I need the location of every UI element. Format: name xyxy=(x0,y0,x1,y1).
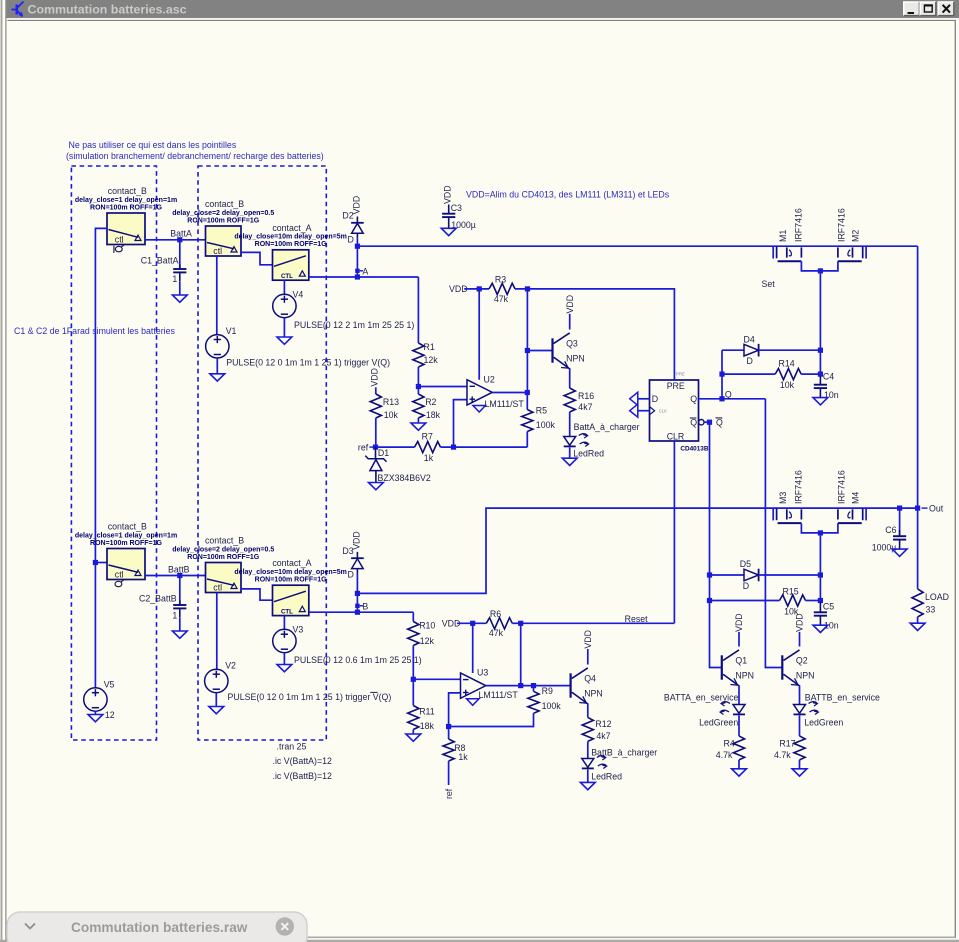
wire M1-M2 source strap xyxy=(801,261,838,271)
wire M3-M4 source strap xyxy=(801,523,838,533)
wire ctl contact_A1 to V4 xyxy=(283,280,285,294)
svg-text:CD4013B: CD4013B xyxy=(680,445,708,452)
wire D4 cathode to M1-M2 source rail xyxy=(759,349,821,351)
download bar overlay xyxy=(7,912,307,942)
svg-text:10k: 10k xyxy=(780,380,795,390)
transistor M4 xyxy=(836,470,862,523)
svg-text:C2_BattB: C2_BattB xyxy=(139,594,177,604)
svg-text:Commutation batteries.asc: Commutation batteries.asc xyxy=(28,3,187,17)
ground xyxy=(277,665,292,672)
svg-text:.ic V(BattB)=12: .ic V(BattB)=12 xyxy=(273,771,333,781)
svg-text:12k: 12k xyxy=(420,636,435,646)
wire R5 top lead xyxy=(526,393,528,410)
svg-text:R13: R13 xyxy=(383,397,399,407)
svg-text:IRF7416: IRF7416 xyxy=(794,470,804,504)
svg-text:M4: M4 xyxy=(851,492,861,504)
capacitor C6 xyxy=(872,525,907,553)
junction xyxy=(719,396,724,401)
svg-text:BattB: BattB xyxy=(168,564,190,574)
svg-text:NPN: NPN xyxy=(735,670,754,680)
svg-text:VDD=Alim du CD4013, des LM111: VDD=Alim du CD4013, des LM111 (LM311) et… xyxy=(466,189,670,199)
wire ctl contact_B2 to V1 xyxy=(216,256,218,335)
wire to C1 xyxy=(179,240,181,269)
wire R11 to ground xyxy=(412,730,414,735)
ground xyxy=(172,631,187,638)
wire Qbar to D5 xyxy=(710,574,745,576)
svg-text:47k: 47k xyxy=(489,628,504,638)
svg-text:R1: R1 xyxy=(424,342,435,352)
wire VDD to U3 V+ xyxy=(472,623,474,673)
ground xyxy=(910,623,925,630)
transistor Q2 xyxy=(782,613,814,686)
wire M2 gate lead xyxy=(865,246,867,258)
wire to U2 inverting input xyxy=(418,386,467,388)
switch U_contactB3 xyxy=(75,522,177,580)
svg-text:Out: Out xyxy=(929,503,944,513)
svg-text:delay_close=10m delay_open=5m: delay_close=10m delay_open=5m xyxy=(234,234,346,241)
voltage source V5 xyxy=(84,680,115,712)
junction xyxy=(707,598,712,603)
resistor R2 xyxy=(413,394,441,420)
svg-text:V5: V5 xyxy=(104,680,115,690)
junction xyxy=(818,598,823,603)
junction xyxy=(177,573,182,578)
capacitor C1_BattA xyxy=(141,255,187,284)
svg-text:Commutation batteries.raw: Commutation batteries.raw xyxy=(71,920,248,935)
svg-text:R10: R10 xyxy=(419,621,435,631)
wire Set to flip-flop PRE xyxy=(515,289,674,380)
wire R8 to ref xyxy=(448,761,450,785)
resistor R1 xyxy=(413,342,438,367)
wire LED to ground xyxy=(587,770,589,783)
svg-text:LedGreen: LedGreen xyxy=(804,718,843,728)
svg-text:.ic V(BattA)=12: .ic V(BattA)=12 xyxy=(273,756,333,766)
wire BattA left rail to V5 xyxy=(95,228,107,688)
svg-text:VDD: VDD xyxy=(352,196,362,215)
wire Qbar to Q1 base xyxy=(710,422,722,667)
svg-text:ref: ref xyxy=(358,442,369,452)
svg-text:RON=100m ROFF=1G: RON=100m ROFF=1G xyxy=(90,204,163,211)
voltage source V1 xyxy=(206,326,237,358)
wire Q to D4 anode xyxy=(721,350,723,399)
wire C1 to ground xyxy=(179,282,181,295)
junction xyxy=(818,348,823,353)
ground xyxy=(562,458,577,465)
svg-text:18k: 18k xyxy=(426,410,441,420)
ground xyxy=(369,483,384,490)
svg-text:LedRed: LedRed xyxy=(573,448,604,458)
svg-text:12: 12 xyxy=(105,710,115,720)
junction xyxy=(525,286,530,291)
svg-text:12k: 12k xyxy=(424,355,439,365)
wire VDD to Q1 collector xyxy=(738,632,740,647)
wire CLR down xyxy=(673,441,675,623)
svg-text:A: A xyxy=(362,266,368,276)
wire M1-M2 sources down to C4 xyxy=(819,271,821,374)
svg-text:ctl: ctl xyxy=(213,583,222,593)
svg-text:V2: V2 xyxy=(225,661,236,671)
svg-text:R5: R5 xyxy=(536,406,547,416)
wire contact_B2 to contact_A1 xyxy=(241,252,273,264)
wire Q output xyxy=(699,398,766,400)
wire contact_B4 to contact_A2 xyxy=(241,589,273,600)
junction xyxy=(416,384,421,389)
wire R8 top lead xyxy=(448,727,450,740)
wire V2 to ground xyxy=(215,693,217,707)
LED D_LedGreen_A xyxy=(699,702,745,728)
svg-text:Q: Q xyxy=(725,389,732,399)
ground xyxy=(441,228,456,235)
svg-text:CLK: CLK xyxy=(659,408,667,413)
svg-text:VDD: VDD xyxy=(370,368,380,387)
svg-text:C5: C5 xyxy=(823,601,834,611)
wire Out to LOAD xyxy=(917,508,919,589)
svg-text:1000µ: 1000µ xyxy=(872,543,897,553)
wire VDD to Q4 collector xyxy=(587,649,589,665)
svg-text:1k: 1k xyxy=(424,453,434,463)
transistor Q4 xyxy=(571,630,603,704)
resistor R6 xyxy=(486,609,512,638)
wire Out to C6 xyxy=(899,508,901,536)
wire U2 output xyxy=(492,392,527,394)
wire LOAD to ground xyxy=(917,617,919,623)
svg-text:R14: R14 xyxy=(779,358,795,368)
ground xyxy=(210,374,225,381)
wire D2 to node A xyxy=(356,238,358,277)
ground xyxy=(813,398,828,405)
wire CLK pin xyxy=(637,410,649,412)
ground xyxy=(411,423,426,430)
junction xyxy=(177,237,182,242)
svg-text:1: 1 xyxy=(172,610,177,620)
wire C2 to ground xyxy=(179,618,181,631)
wire R7 to R5 bottom xyxy=(441,446,528,448)
wire R5 bottom lead xyxy=(526,432,528,448)
wire node A to R1 xyxy=(417,277,419,343)
wire Reset xyxy=(521,622,675,624)
switch U_contactA1 xyxy=(234,223,346,280)
op-amp U3 xyxy=(461,668,519,706)
input arrow D xyxy=(630,392,638,405)
switch U_contactB4 xyxy=(172,536,274,593)
wire R4 to ground xyxy=(738,760,740,769)
svg-text:R11: R11 xyxy=(419,706,435,716)
svg-text:VDD: VDD xyxy=(565,295,575,314)
svg-text:CLR: CLR xyxy=(667,431,685,441)
transistor Q1 xyxy=(722,613,754,686)
diode D4 xyxy=(744,334,759,366)
svg-text:(simulation branchement/ debra: (simulation branchement/ debranchement/ … xyxy=(66,151,324,161)
wire M3 gate lead xyxy=(772,508,774,520)
wire to C2 xyxy=(179,576,181,606)
svg-text:.tran 25: .tran 25 xyxy=(277,741,307,751)
wire VDD top bus xyxy=(357,245,917,247)
svg-text:V4: V4 xyxy=(293,289,304,299)
svg-text:M2: M2 xyxy=(851,230,861,242)
svg-text:D: D xyxy=(348,570,354,580)
svg-text:4.7k: 4.7k xyxy=(716,750,733,760)
wire R10 to R11 xyxy=(412,646,414,680)
svg-text:PULSE(0 12 2 1m 1m 25 25 1): PULSE(0 12 2 1m 1m 25 25 1) xyxy=(294,320,414,330)
svg-text:VDD: VDD xyxy=(442,185,452,204)
svg-text:contact_B: contact_B xyxy=(205,536,244,546)
wire R13 to ref xyxy=(375,418,377,447)
svg-text:R6: R6 xyxy=(490,609,501,619)
svg-text:delay_close=10m delay_open=5m: delay_close=10m delay_open=5m xyxy=(234,569,346,576)
wire R3 junction down to output xyxy=(526,289,528,393)
net label Q (ctl of contact_B3) xyxy=(115,580,124,587)
svg-text:ctl: ctl xyxy=(115,235,124,245)
svg-text:RON=100m ROFF=1G: RON=100m ROFF=1G xyxy=(90,540,163,547)
svg-text:Q: Q xyxy=(690,418,697,428)
resistor R8 xyxy=(443,739,468,762)
svg-text:PULSE(0 12 0 1m 1m 1 25 1) tri: PULSE(0 12 0 1m 1m 1 25 1) trigger V(Q) xyxy=(228,692,392,702)
svg-text:1k: 1k xyxy=(458,752,468,762)
svg-text:B: B xyxy=(362,601,368,611)
switch U_contactB2 xyxy=(172,199,274,256)
svg-text:U3: U3 xyxy=(477,668,488,678)
wire ctl contact_B4 to V2 xyxy=(216,593,218,670)
resistor R17 xyxy=(774,736,805,760)
svg-text:R2: R2 xyxy=(425,397,436,407)
junction xyxy=(446,724,451,729)
ground xyxy=(209,707,224,714)
svg-text:RON=100m ROFF=1G: RON=100m ROFF=1G xyxy=(255,577,328,584)
svg-text:R3: R3 xyxy=(495,275,506,285)
client area right border xyxy=(955,20,956,938)
resistor R3 xyxy=(489,275,515,304)
wire to D4 xyxy=(722,349,744,351)
resistor R5 xyxy=(522,406,556,432)
junction xyxy=(915,506,920,511)
close button xyxy=(938,2,954,16)
resistor R14 xyxy=(775,358,801,390)
svg-text:LOAD: LOAD xyxy=(925,592,949,602)
ground xyxy=(732,769,747,776)
svg-text:R15: R15 xyxy=(783,587,799,597)
svg-text:33: 33 xyxy=(926,605,936,615)
client area bottom border xyxy=(7,937,957,938)
dashed box 1 xyxy=(71,166,156,740)
svg-text:C3: C3 xyxy=(451,203,462,213)
zener diode D1 xyxy=(365,447,431,483)
svg-text:D: D xyxy=(747,356,753,366)
svg-text:LedGreen: LedGreen xyxy=(699,718,738,728)
svg-text:PULSE(0 12 0 1m 1m 1 25 1) tri: PULSE(0 12 0 1m 1m 1 25 1) trigger V(Q) xyxy=(226,358,390,368)
transistor M3 xyxy=(777,470,804,523)
wire R1 to R2 xyxy=(417,367,419,387)
svg-text:ref: ref xyxy=(444,788,454,799)
wire U3 non-inverting input xyxy=(449,693,461,727)
switch U_contactA2 xyxy=(234,558,346,615)
wire Q2 emitter to LED xyxy=(799,685,801,704)
wire ref to R7 xyxy=(372,446,414,448)
svg-text:R12: R12 xyxy=(595,719,611,729)
wire Q3 emitter to R16 xyxy=(569,368,571,388)
ground xyxy=(88,715,103,722)
voltage source V4 xyxy=(273,289,304,317)
wire V1 to ground xyxy=(216,358,218,374)
wire Q4 emitter to R12 xyxy=(587,703,589,717)
ground xyxy=(277,337,292,344)
svg-text:V1: V1 xyxy=(226,326,237,336)
ground xyxy=(792,769,807,776)
svg-text:ctl: ctl xyxy=(213,246,222,256)
wire net BattB xyxy=(145,575,206,577)
svg-text:BattA: BattA xyxy=(170,229,192,239)
svg-text:BATTB_en_service: BATTB_en_service xyxy=(805,693,880,703)
wire U3 output to Q4 base xyxy=(486,685,571,687)
svg-text:CTL: CTL xyxy=(281,273,293,280)
svg-text:4.7k: 4.7k xyxy=(774,750,791,760)
svg-text:Ne pas utiliser ce qui est dan: Ne pas utiliser ce qui est dans les poin… xyxy=(69,140,237,150)
wire V5 to ground xyxy=(94,711,96,714)
wire LED to R17 xyxy=(799,716,801,736)
wire R15 left xyxy=(710,600,780,602)
svg-text:C6: C6 xyxy=(885,525,896,535)
dashed box 2 xyxy=(198,166,326,740)
svg-text:R9: R9 xyxy=(542,686,553,696)
svg-text:PRE: PRE xyxy=(667,381,685,391)
junction xyxy=(355,274,360,279)
junction xyxy=(518,683,523,688)
svg-text:R17: R17 xyxy=(779,738,795,748)
resistor R4 xyxy=(716,736,745,760)
wire VDD to R13 xyxy=(375,387,377,394)
resistor R15 xyxy=(780,587,806,617)
svg-text:Q: Q xyxy=(716,417,723,427)
maximize button xyxy=(920,2,936,16)
junction xyxy=(93,560,98,565)
wire V4 to ground xyxy=(283,318,285,337)
svg-text:47k: 47k xyxy=(494,294,509,304)
wire down to U3 output xyxy=(520,623,522,685)
svg-text:PRE: PRE xyxy=(676,372,685,377)
svg-text:R7: R7 xyxy=(422,431,433,441)
svg-text:contact_A: contact_A xyxy=(272,558,311,568)
svg-text:1: 1 xyxy=(172,274,177,284)
junction xyxy=(531,683,536,688)
wire right rail to Out xyxy=(917,246,919,508)
junction xyxy=(355,610,360,615)
svg-text:C4: C4 xyxy=(823,372,834,382)
svg-text:contact_A: contact_A xyxy=(272,223,311,233)
svg-text:CTL: CTL xyxy=(281,608,293,615)
LED D_LedGreen_B xyxy=(794,702,844,728)
wire node B to R10 xyxy=(412,612,414,621)
junction xyxy=(525,390,530,395)
wire D pin xyxy=(637,398,649,400)
wire M4 gate lead xyxy=(865,508,867,520)
svg-text:IRF7416: IRF7416 xyxy=(836,208,846,242)
junction xyxy=(477,286,482,291)
svg-text:RON=100m ROFF=1G: RON=100m ROFF=1G xyxy=(187,554,260,561)
svg-text:Q2: Q2 xyxy=(796,656,808,666)
svg-text:BattA_à_charger: BattA_à_charger xyxy=(574,422,640,432)
svg-text:D: D xyxy=(652,394,658,404)
resistor R12 xyxy=(582,717,611,741)
svg-text:100k: 100k xyxy=(536,420,556,430)
op-amp U2 xyxy=(467,374,524,412)
ground xyxy=(580,782,595,789)
svg-text:RON=100m ROFF=1G: RON=100m ROFF=1G xyxy=(187,217,260,224)
svg-text:LM111/ST: LM111/ST xyxy=(485,399,525,409)
resistor R7 xyxy=(415,431,441,463)
svg-text:delay_close=1 delay_open=1m: delay_close=1 delay_open=1m xyxy=(75,197,177,204)
svg-text:U2: U2 xyxy=(484,374,495,384)
svg-text:BZX384B6V2: BZX384B6V2 xyxy=(378,473,431,483)
junction xyxy=(518,621,523,626)
svg-text:delay_close=2 delay_open=0.5: delay_close=2 delay_open=0.5 xyxy=(172,210,274,217)
wire net BattA xyxy=(145,239,206,241)
wire node A horizontal xyxy=(309,276,419,278)
resistor R11 xyxy=(408,706,435,731)
svg-text:VDD: VDD xyxy=(352,531,362,550)
svg-text:18k: 18k xyxy=(420,721,435,731)
wire R2 top lead xyxy=(417,387,419,395)
wire to U3 inverting input xyxy=(413,678,460,680)
svg-text:V3: V3 xyxy=(293,624,304,634)
svg-text:M1: M1 xyxy=(778,230,788,242)
wire R14 left xyxy=(722,373,775,375)
resistor R16 xyxy=(564,388,594,412)
LED D_LedRed_B xyxy=(582,756,622,782)
wire R15 right xyxy=(806,600,821,602)
svg-text:VDD: VDD xyxy=(734,613,744,632)
wire VDD to R6 xyxy=(457,622,486,624)
wire contact_B3 left pin xyxy=(95,562,107,564)
svg-text:R4: R4 xyxy=(724,738,735,748)
wire R11 top lead xyxy=(412,679,414,705)
svg-text:IRF7416: IRF7416 xyxy=(836,470,846,504)
ground xyxy=(813,625,828,632)
voltage source V3 xyxy=(273,624,304,652)
application icon xyxy=(12,2,24,17)
capacitor C2_BattB xyxy=(139,594,186,621)
svg-text:M3: M3 xyxy=(778,492,788,504)
svg-text:Set: Set xyxy=(762,279,776,289)
junction xyxy=(707,572,712,577)
junction xyxy=(707,420,712,425)
capacitor C3 xyxy=(442,185,476,229)
wire LED to ground xyxy=(569,448,571,459)
svg-text:4k7: 4k7 xyxy=(596,731,610,741)
svg-text:C1_BattA: C1_BattA xyxy=(141,255,179,265)
svg-text:VDD: VDD xyxy=(583,630,593,649)
svg-text:D: D xyxy=(743,581,749,591)
resistor R9 xyxy=(528,686,561,713)
transistor M2 xyxy=(836,208,862,261)
wire to Q3 base xyxy=(527,350,552,352)
svg-text:LedRed: LedRed xyxy=(591,771,622,781)
wire D3 to node B xyxy=(356,573,358,612)
flip-flop U1 CD4013B xyxy=(650,372,709,453)
wire Q to Q2 base xyxy=(765,399,782,668)
junction xyxy=(525,348,530,353)
ground xyxy=(892,549,907,556)
transistor Q3 xyxy=(553,295,585,369)
diode D2 xyxy=(342,196,363,245)
junction xyxy=(355,244,360,249)
title bar xyxy=(7,0,959,18)
LED D_LedRed_A xyxy=(564,434,604,459)
resistor R13 xyxy=(370,394,399,420)
wire M1 gate lead xyxy=(772,246,774,258)
wire R9 top lead xyxy=(533,686,535,692)
svg-text:VDD: VDD xyxy=(795,613,805,632)
wire VDD to Q2 collector xyxy=(799,632,801,647)
junction xyxy=(719,372,724,377)
